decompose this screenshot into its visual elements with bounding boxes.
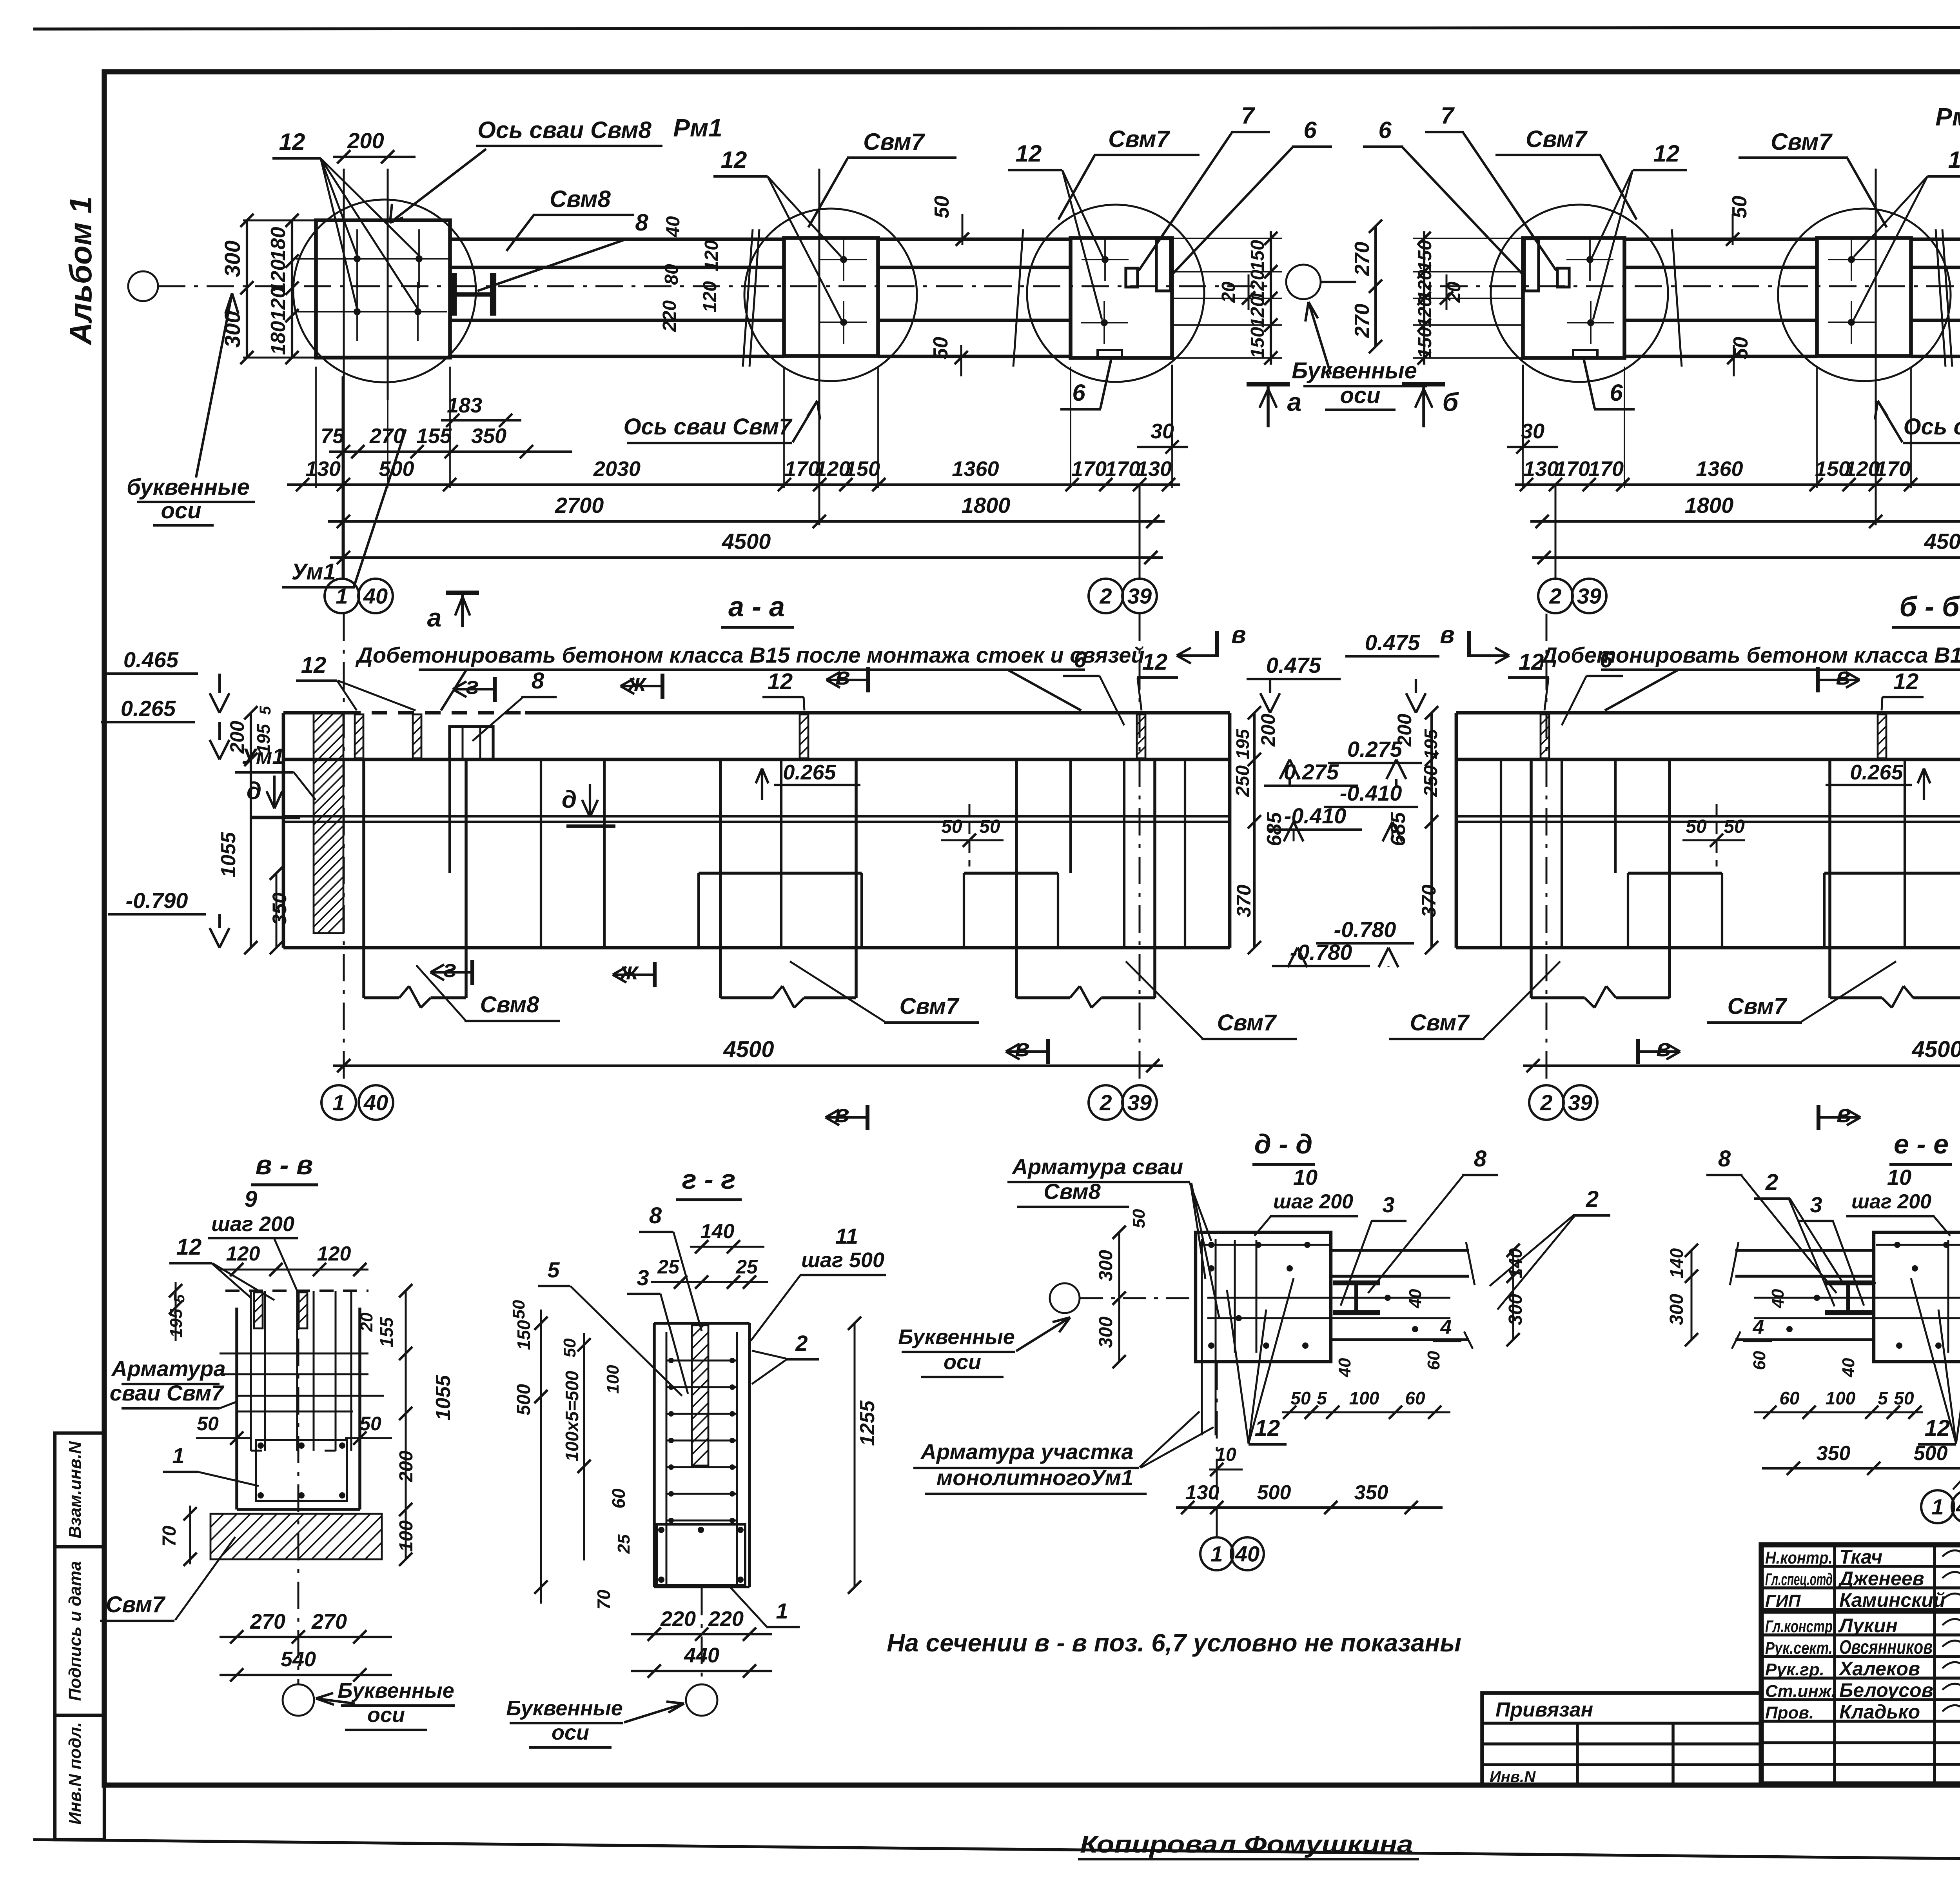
vdim right stack xyxy=(1253,713,1256,948)
svg-text:195: 195 xyxy=(1421,728,1441,759)
svg-text:155: 155 xyxy=(416,424,452,448)
block Svm7 right xyxy=(1523,238,1624,358)
svg-text:3: 3 xyxy=(637,1265,649,1290)
svg-text:0.265: 0.265 xyxy=(121,696,176,721)
svg-text:120: 120 xyxy=(701,240,722,271)
svg-text:Ось сваи Свм7: Ось сваи Свм7 xyxy=(1904,414,1960,440)
letter axis bubble xyxy=(1050,1283,1080,1313)
sheet outer top line xyxy=(33,27,1960,29)
v-v vertical bars xyxy=(250,1291,252,1451)
g-g left dim chains xyxy=(540,1310,542,1604)
block Svm7 mid xyxy=(1817,238,1911,356)
svg-text:Свм8: Свм8 xyxy=(550,186,611,212)
svg-text:Свм7: Свм7 xyxy=(1771,129,1833,155)
svg-text:4500: 4500 xyxy=(1911,1037,1960,1062)
svg-text:1: 1 xyxy=(172,1443,184,1468)
svg-text:60: 60 xyxy=(1750,1351,1769,1370)
svg-text:12: 12 xyxy=(1653,140,1680,167)
beam lines mid xyxy=(878,238,1071,241)
svg-text:1: 1 xyxy=(1210,1542,1223,1566)
svg-text:2: 2 xyxy=(795,1331,808,1355)
right vdims xyxy=(1512,1250,1514,1340)
svg-text:е - е: е - е xyxy=(1894,1129,1949,1159)
svg-text:40: 40 xyxy=(363,584,388,609)
pile axis verticals xyxy=(343,169,345,579)
svg-text:12: 12 xyxy=(1893,669,1919,694)
svg-text:Кладько: Кладько xyxy=(1839,1701,1920,1723)
svg-text:б: б xyxy=(1443,387,1459,416)
svg-text:150: 150 xyxy=(1247,240,1268,271)
svg-text:5: 5 xyxy=(171,1294,188,1303)
svg-text:220: 220 xyxy=(660,1607,696,1631)
svg-text:130: 130 xyxy=(1185,1481,1220,1504)
svg-text:200: 200 xyxy=(1394,714,1416,747)
svg-text:150: 150 xyxy=(845,457,880,481)
embedded I-beam xyxy=(1825,1281,1872,1286)
svg-text:1: 1 xyxy=(336,584,348,609)
svg-text:20: 20 xyxy=(1218,282,1239,303)
svg-text:Свм7: Свм7 xyxy=(106,1592,166,1617)
svg-text:60: 60 xyxy=(1405,1388,1425,1408)
rebar dots block B xyxy=(1848,256,1855,263)
title block left rows xyxy=(1761,1565,1960,1568)
svg-text:-0.780: -0.780 xyxy=(1334,917,1396,942)
svg-text:140: 140 xyxy=(701,1220,735,1243)
svg-text:в: в xyxy=(1231,621,1246,648)
svg-text:4500: 4500 xyxy=(1924,529,1960,554)
svg-text:50: 50 xyxy=(979,816,1000,837)
svg-text:3: 3 xyxy=(1810,1192,1822,1217)
svg-text:25: 25 xyxy=(614,1534,633,1554)
beam break mark xyxy=(1942,229,1952,367)
svg-text:Пров.: Пров. xyxy=(1765,1703,1814,1722)
right vdim 150 120 120 150 xyxy=(1270,231,1272,365)
svg-text:130: 130 xyxy=(305,457,341,481)
svg-text:2: 2 xyxy=(1549,584,1561,609)
left vdims xyxy=(1118,1232,1120,1362)
svg-text:б - б: б - б xyxy=(1899,591,1960,623)
v-v bottom dims xyxy=(220,1636,392,1638)
svg-text:оси: оси xyxy=(944,1350,981,1374)
rebar dots block C xyxy=(1586,256,1593,263)
body edges xyxy=(282,713,285,948)
svg-text:шаг 200: шаг 200 xyxy=(1851,1190,1931,1213)
detail circle C xyxy=(1491,205,1668,382)
beam break mark 2 xyxy=(1672,229,1682,367)
svg-text:50: 50 xyxy=(1724,816,1745,837)
beam lines xyxy=(1331,1249,1469,1252)
svg-text:685: 685 xyxy=(1387,812,1410,846)
svg-text:130: 130 xyxy=(1136,457,1172,481)
svg-text:шаг 200: шаг 200 xyxy=(1273,1190,1353,1213)
section flag a left xyxy=(446,590,479,595)
svg-text:39: 39 xyxy=(1127,1090,1152,1115)
svg-text:39: 39 xyxy=(1577,584,1601,609)
g-g bottom dims xyxy=(631,1633,772,1635)
dims 50 5 100 60 row xyxy=(1754,1411,1923,1413)
svg-text:12: 12 xyxy=(721,147,747,173)
svg-text:170: 170 xyxy=(1105,457,1140,481)
svg-text:12: 12 xyxy=(1016,140,1042,167)
svg-text:40: 40 xyxy=(1839,1358,1858,1377)
svg-text:1255: 1255 xyxy=(856,1400,879,1446)
svg-text:Гл.констр: Гл.констр xyxy=(1765,1617,1833,1636)
svg-text:50: 50 xyxy=(1290,1388,1311,1408)
svg-text:На сечении в - в поз. 6,7 у: На сечении в - в поз. 6,7 условно не пок… xyxy=(887,1629,1461,1657)
svg-text:2: 2 xyxy=(1765,1170,1778,1195)
svg-text:1800: 1800 xyxy=(962,493,1011,518)
svg-text:Ось сваи Свм7: Ось сваи Свм7 xyxy=(624,414,793,440)
svg-text:350: 350 xyxy=(471,424,506,448)
dim 4500 bottom xyxy=(1523,1064,1960,1067)
svg-text:5: 5 xyxy=(1878,1388,1888,1408)
svg-text:170: 170 xyxy=(1875,457,1911,481)
svg-text:Буквенные: Буквенные xyxy=(338,1679,454,1702)
svg-text:25: 25 xyxy=(735,1256,758,1278)
letter axes leader xyxy=(196,293,232,478)
svg-text:2: 2 xyxy=(1099,1090,1112,1115)
svg-text:ГИП: ГИП xyxy=(1765,1591,1801,1611)
svg-text:4: 4 xyxy=(1440,1316,1452,1339)
body bottom line xyxy=(283,946,1230,950)
svg-text:39: 39 xyxy=(1127,584,1152,609)
svg-text:170: 170 xyxy=(1071,457,1107,481)
svg-text:0.265: 0.265 xyxy=(1850,761,1903,784)
rebar dots block A xyxy=(354,255,361,262)
svg-text:50: 50 xyxy=(197,1413,219,1435)
svg-text:1: 1 xyxy=(1931,1495,1944,1519)
v-v foundation hatch xyxy=(211,1514,382,1559)
svg-text:100х5=500: 100х5=500 xyxy=(562,1371,582,1462)
g-g stirrup xyxy=(657,1524,745,1585)
svg-text:буквенные: буквенные xyxy=(127,474,250,500)
mid construction joint lines xyxy=(1456,815,1960,817)
dim row 1 xyxy=(329,450,572,453)
v-v axis bubble xyxy=(298,1290,299,1684)
svg-text:11: 11 xyxy=(835,1224,858,1248)
svg-text:120: 120 xyxy=(267,287,290,321)
dim 4500 bottom xyxy=(333,1064,1163,1067)
svg-text:50: 50 xyxy=(560,1338,579,1357)
svg-text:70: 70 xyxy=(159,1526,180,1547)
svg-text:Добетонировать бетоном класса: Добетонировать бетоном класса В15 после … xyxy=(355,643,1144,667)
svg-text:а: а xyxy=(1287,387,1302,416)
title block vertical dividers xyxy=(1833,1545,1836,1784)
svg-text:10: 10 xyxy=(1215,1444,1236,1465)
svg-text:Арматура: Арматура xyxy=(111,1356,225,1381)
svg-text:Каминский: Каминский xyxy=(1839,1589,1945,1611)
svg-text:220: 220 xyxy=(659,300,680,332)
svg-text:Ст.инж.: Ст.инж. xyxy=(1765,1682,1836,1701)
right vdim 150 120 120 150 xyxy=(1423,231,1425,365)
svg-text:155: 155 xyxy=(376,1317,397,1347)
svg-text:50: 50 xyxy=(509,1300,528,1319)
svg-text:6: 6 xyxy=(1610,380,1623,406)
svg-text:40: 40 xyxy=(1235,1542,1259,1566)
block Um corner xyxy=(316,220,450,358)
detail circle B xyxy=(744,209,917,381)
svg-text:350: 350 xyxy=(269,892,290,925)
svg-text:8: 8 xyxy=(1718,1146,1731,1172)
svg-text:2: 2 xyxy=(1099,584,1112,609)
svg-text:200: 200 xyxy=(396,1451,417,1482)
g-g column outline xyxy=(653,1323,656,1587)
dim row 4500 xyxy=(1532,556,1960,559)
svg-text:Копировал Фомушкина: Копировал Фомушкина xyxy=(1080,1831,1413,1858)
svg-text:8: 8 xyxy=(635,209,648,236)
svg-text:60: 60 xyxy=(608,1488,629,1509)
svg-text:4: 4 xyxy=(1753,1316,1764,1339)
svg-text:8: 8 xyxy=(649,1203,662,1228)
svg-text:300: 300 xyxy=(1666,1294,1687,1325)
plate 6 bottom block C xyxy=(1098,350,1122,357)
svg-text:140: 140 xyxy=(1666,1248,1687,1278)
svg-text:30: 30 xyxy=(1521,420,1544,443)
svg-text:12: 12 xyxy=(301,652,327,678)
svg-text:270: 270 xyxy=(311,1610,347,1633)
svg-text:195: 195 xyxy=(1232,728,1253,759)
svg-text:д: д xyxy=(562,786,577,813)
svg-text:Свм7: Свм7 xyxy=(863,129,925,155)
g-g axis bubble xyxy=(701,1588,703,1684)
block Svm7 mid xyxy=(784,238,878,356)
svg-text:40: 40 xyxy=(663,216,684,238)
plate 7 in block C xyxy=(1126,268,1138,287)
mid construction joint lines xyxy=(283,815,1230,817)
svg-text:5: 5 xyxy=(547,1257,560,1282)
svg-text:Буквенные: Буквенные xyxy=(506,1697,623,1720)
svg-text:300: 300 xyxy=(1505,1294,1526,1325)
svg-text:9: 9 xyxy=(245,1186,257,1212)
svg-text:50: 50 xyxy=(931,196,953,218)
axis bubble left xyxy=(128,271,158,301)
shared mid axis bubble xyxy=(1286,265,1321,299)
plate 7 in block C xyxy=(1557,268,1569,287)
svg-text:6: 6 xyxy=(1074,647,1087,672)
svg-text:Рук.сект.: Рук.сект. xyxy=(1765,1638,1833,1658)
svg-text:12: 12 xyxy=(1925,1415,1950,1441)
svg-text:183: 183 xyxy=(447,394,482,417)
svg-text:150: 150 xyxy=(1415,327,1436,358)
section flag a right xyxy=(1402,382,1445,386)
svg-text:100: 100 xyxy=(1826,1388,1856,1408)
svg-text:300: 300 xyxy=(220,240,245,277)
svg-text:Ум1: Ум1 xyxy=(292,559,336,585)
svg-text:500: 500 xyxy=(1914,1442,1948,1465)
svg-text:80: 80 xyxy=(661,264,682,285)
svg-text:Взам.инв.N: Взам.инв.N xyxy=(65,1441,85,1539)
svg-text:50: 50 xyxy=(1686,816,1707,837)
svg-text:12: 12 xyxy=(1142,649,1168,675)
svg-text:150: 150 xyxy=(1415,240,1436,271)
g-g channel hatch strip xyxy=(692,1325,708,1466)
center axis line xyxy=(1425,285,1960,287)
svg-text:50: 50 xyxy=(1894,1388,1914,1408)
v-v right dim chain xyxy=(405,1291,407,1559)
step lines xyxy=(1824,872,1960,875)
svg-text:12: 12 xyxy=(1948,147,1960,173)
svg-text:300: 300 xyxy=(1096,1250,1116,1281)
vdim 180 120 120 180 xyxy=(291,220,293,358)
extension verticals xyxy=(342,376,344,579)
svg-text:в: в xyxy=(1440,621,1454,648)
svg-text:7: 7 xyxy=(1441,102,1455,129)
svg-text:Альбом 1: Альбом 1 xyxy=(63,196,98,345)
svg-text:5: 5 xyxy=(257,706,274,715)
svg-text:300: 300 xyxy=(1096,1317,1116,1348)
bottom dim row 130 500 350 xyxy=(1762,1467,1960,1469)
pile stubs xyxy=(362,948,365,998)
svg-text:12: 12 xyxy=(279,129,305,155)
svg-text:70: 70 xyxy=(593,1589,614,1610)
dim row 2700 1800 xyxy=(1530,520,1960,523)
svg-text:8: 8 xyxy=(532,668,544,694)
svg-text:Инв.N подл.: Инв.N подл. xyxy=(65,1722,85,1825)
svg-text:40: 40 xyxy=(1406,1289,1425,1308)
dim row 4500 xyxy=(330,556,1163,559)
corridor beam lines xyxy=(1911,238,1960,241)
body bottom line xyxy=(1456,946,1960,950)
svg-text:Рм1: Рм1 xyxy=(673,114,722,142)
dims 50 5 100 60 row xyxy=(1282,1411,1450,1413)
svg-text:Ось сваи Свм8: Ось сваи Свм8 xyxy=(477,117,652,143)
svg-text:1: 1 xyxy=(332,1090,345,1115)
center axis line xyxy=(158,285,1270,287)
svg-text:40: 40 xyxy=(1768,1289,1788,1308)
svg-text:130: 130 xyxy=(1523,457,1559,481)
svg-text:а: а xyxy=(427,603,442,632)
svg-text:Халеков: Халеков xyxy=(1838,1658,1920,1680)
axis verticals dashed xyxy=(343,614,345,1085)
svg-text:370: 370 xyxy=(1233,885,1255,917)
detail circle C xyxy=(1027,205,1204,382)
svg-text:100: 100 xyxy=(396,1520,417,1552)
rebar dots xyxy=(1208,1242,1214,1248)
v-v top cutoff dashed xyxy=(225,1290,368,1292)
svg-text:Ткач: Ткач xyxy=(1839,1546,1882,1568)
svg-text:120: 120 xyxy=(317,1242,351,1265)
axis bubbles xyxy=(321,1085,356,1120)
inner rebar bars xyxy=(1201,1239,1203,1435)
svg-text:250: 250 xyxy=(1232,765,1253,797)
g-g right dim 1255 xyxy=(854,1323,856,1587)
svg-text:Рук.гр.: Рук.гр. xyxy=(1765,1660,1824,1679)
svg-text:Подпись и дата: Подпись и дата xyxy=(65,1561,85,1701)
svg-text:7: 7 xyxy=(1241,102,1255,129)
svg-text:170: 170 xyxy=(784,457,820,481)
pile axis Svm7 vertical xyxy=(818,169,820,525)
svg-text:500: 500 xyxy=(379,457,414,481)
left margin table xyxy=(55,1433,104,1840)
v-v cage outline xyxy=(235,1308,238,1509)
svg-text:0.465: 0.465 xyxy=(123,647,179,672)
axis bubbles bottom xyxy=(1216,1362,1218,1537)
title block outer xyxy=(1761,1545,1960,1784)
svg-text:Лукин: Лукин xyxy=(1838,1615,1898,1637)
beam lines xyxy=(1735,1249,1874,1252)
beam break mark xyxy=(743,229,753,367)
svg-text:2: 2 xyxy=(1586,1186,1599,1212)
svg-text:4500: 4500 xyxy=(722,529,771,554)
svg-text:д: д xyxy=(247,777,261,805)
svg-text:200: 200 xyxy=(1257,714,1279,747)
g-g ladder bars xyxy=(666,1332,668,1584)
v-v stirrup xyxy=(256,1440,347,1501)
svg-text:12: 12 xyxy=(176,1234,202,1260)
v-v horizontal bars xyxy=(220,1353,368,1355)
svg-text:39: 39 xyxy=(1568,1090,1592,1115)
svg-text:500: 500 xyxy=(514,1384,534,1415)
svg-text:Привязан: Привязан xyxy=(1495,1698,1593,1721)
svg-text:270: 270 xyxy=(250,1610,285,1633)
monolith hatched column xyxy=(314,713,343,933)
svg-text:а - а: а - а xyxy=(728,591,785,623)
svg-text:370: 370 xyxy=(1418,885,1440,917)
dim row 2 xyxy=(287,483,1180,486)
ledge line xyxy=(1456,758,1960,761)
svg-text:350: 350 xyxy=(1354,1481,1388,1504)
svg-text:500: 500 xyxy=(1257,1481,1291,1504)
svg-text:50: 50 xyxy=(359,1413,381,1435)
svg-text:0.475: 0.475 xyxy=(1365,630,1420,655)
svg-text:1: 1 xyxy=(776,1598,788,1623)
right vdims xyxy=(1691,1250,1693,1340)
embedded I-beam xyxy=(1333,1281,1380,1286)
svg-text:3: 3 xyxy=(1382,1192,1394,1217)
sheet outer bottom line xyxy=(33,1840,1960,1865)
svg-text:шаг 200: шаг 200 xyxy=(211,1212,294,1236)
rebar dots block B xyxy=(840,256,847,263)
svg-text:Свм7: Свм7 xyxy=(1728,994,1788,1019)
svg-text:шаг 500: шаг 500 xyxy=(801,1248,884,1272)
svg-text:Арматура сваи: Арматура сваи xyxy=(1011,1154,1183,1179)
svg-text:50: 50 xyxy=(1129,1209,1149,1228)
svg-text:Ум1: Ум1 xyxy=(241,744,284,768)
svg-text:Свм7: Свм7 xyxy=(1217,1010,1277,1035)
svg-text:0.265: 0.265 xyxy=(783,761,836,784)
svg-text:40: 40 xyxy=(1335,1358,1354,1377)
svg-text:30: 30 xyxy=(1151,420,1174,443)
svg-text:100: 100 xyxy=(603,1365,622,1394)
svg-text:6: 6 xyxy=(1072,380,1085,406)
block Svm7 right xyxy=(1071,238,1172,358)
svg-text:-0.410: -0.410 xyxy=(1340,781,1402,805)
svg-text:Дженеев: Дженеев xyxy=(1838,1568,1924,1589)
svg-text:150: 150 xyxy=(1815,457,1850,481)
svg-text:Свм7: Свм7 xyxy=(1410,1010,1470,1035)
svg-text:1360: 1360 xyxy=(952,457,999,481)
svg-text:300: 300 xyxy=(220,311,245,347)
svg-text:170: 170 xyxy=(1588,457,1624,481)
rebar outlet hatches xyxy=(355,714,363,758)
axis bubbles bottom xyxy=(325,579,359,613)
svg-text:4500: 4500 xyxy=(723,1037,774,1062)
svg-text:140: 140 xyxy=(1505,1248,1526,1278)
svg-text:200: 200 xyxy=(347,128,384,153)
svg-text:10: 10 xyxy=(1887,1165,1911,1190)
svg-text:2030: 2030 xyxy=(593,457,641,481)
svg-text:120: 120 xyxy=(1247,296,1268,328)
dim row 2700 1800 xyxy=(328,520,1165,523)
svg-text:Свм7: Свм7 xyxy=(900,994,960,1019)
svg-text:8: 8 xyxy=(1474,1146,1487,1172)
svg-text:1360: 1360 xyxy=(1696,457,1743,481)
svg-text:100: 100 xyxy=(1349,1388,1379,1408)
svg-text:г: г xyxy=(443,955,456,983)
svg-text:1800: 1800 xyxy=(1685,493,1734,518)
svg-text:10: 10 xyxy=(1293,1165,1318,1190)
svg-text:60: 60 xyxy=(1424,1351,1443,1370)
